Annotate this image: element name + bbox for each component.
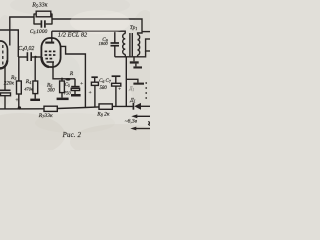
triode V1a (left, cut off at edge) [0, 41, 8, 68]
resistor R7 33k horizontal [44, 106, 57, 111]
svg-text:1800: 1800 [99, 41, 109, 46]
svg-text:470к: 470к [24, 86, 33, 91]
resistor R5 33k (top feedback, horizontal box) [34, 11, 52, 24]
arrow terminal 2 [130, 127, 150, 131]
transformer Tr1 [123, 32, 142, 57]
arrow terminal 1 (6.3V heater) [131, 114, 150, 118]
svg-text:1/2 ECL 82: 1/2 ECL 82 [58, 32, 88, 39]
electrolytic C7 580 [112, 76, 121, 106]
wire: input line from left edge to coupling branch [0, 30, 18, 57]
svg-text:300: 300 [48, 89, 56, 94]
capacitor C5 1000 (parallel with R5) [34, 20, 52, 27]
resistor R6 300 vertical [60, 79, 65, 98]
wire: top feedback rail from anode junction to RC loop [10, 17, 34, 46]
paper mottling [0, 0, 170, 160]
core [129, 33, 131, 56]
anode bar [45, 42, 54, 44]
paper background [0, 0, 150, 150]
speaker box at right edge [146, 39, 152, 51]
anode lead up [51, 31, 53, 43]
edge mark [148, 122, 150, 126]
cathode [47, 61, 55, 63]
wire: transformer bottom [115, 51, 146, 57]
bottom bias line [0, 108, 44, 110]
text labels [4, 3, 138, 140]
ground bar under R4 [30, 99, 40, 101]
svg-text:+: + [118, 87, 122, 93]
wire: triode cathode down to bypass cap [4, 67, 6, 91]
diode D1 [133, 103, 150, 110]
chassis tap with bar (right of rail) [126, 79, 144, 84]
resistor R8 2k horizontal [99, 104, 112, 109]
resistor R3 220k vertical [17, 57, 22, 109]
electrolytic C6 580 [91, 77, 98, 107]
right winding [138, 35, 140, 55]
wire: pentode cathode [53, 69, 75, 79]
dotted chassis line [145, 82, 147, 99]
node: grid junction dot [34, 56, 36, 58]
svg-text:580: 580 [100, 86, 108, 91]
wire: screen grid tap to lower line [60, 46, 85, 107]
svg-text:+: + [80, 81, 84, 87]
node: cathode junction dot [61, 78, 63, 80]
svg-text:~6,3в: ~6,3в [125, 118, 138, 124]
capacitor C4 0,02 coupling [18, 52, 42, 61]
electrolytic cap at triode cathode [0, 90, 11, 109]
svg-text:С40,02: С40,02 [18, 46, 34, 52]
electrolytic cathode bypass cap C5 750 [71, 79, 79, 94]
wire: stub to right edge [142, 31, 150, 33]
svg-text:+: + [15, 98, 19, 104]
wire: anode line to transformer primary [52, 31, 125, 33]
svg-text:R4: R4 [25, 79, 31, 85]
svg-text:750: 750 [64, 90, 72, 95]
left winding [123, 34, 126, 55]
ground bar under bypass cap [71, 94, 81, 97]
wire: vertical rail from transformer bottom [125, 57, 127, 107]
resistor R4 470k vertical [33, 57, 38, 99]
ground under transformer [130, 57, 142, 69]
wire: B+ top rail to output transformer [52, 19, 142, 32]
svg-text:С51000: С51000 [30, 29, 48, 35]
capacitor C9 1800 across primary [111, 31, 120, 57]
ground bar under R6 [57, 98, 69, 101]
svg-text:С6 С7: С6 С7 [99, 79, 111, 84]
svg-text:+: + [88, 90, 92, 96]
node: dot at bottom line R3 [18, 106, 21, 109]
pentode V1b 1/2 ECL82 [41, 31, 60, 68]
grid dashes row1 [45, 51, 56, 58]
